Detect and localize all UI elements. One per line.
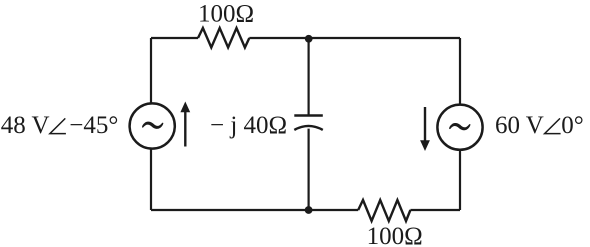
wire left vertical lower [150,149,152,210]
source V1 tilde [142,122,163,129]
svg-text:48 V: 48 V [1,112,50,139]
wire top-left horizontal [151,37,198,39]
svg-text:60 V: 60 V [495,112,544,139]
wire top-right horizontal [249,37,460,39]
svg-text:−45°: −45° [69,112,118,139]
svg-text:0°: 0° [561,112,584,139]
wire right vertical upper [459,38,461,104]
svg-text:100Ω: 100Ω [198,0,254,27]
wire bottom-right horizontal [410,209,460,211]
source V1 circle [130,103,175,148]
angle symbol right [545,118,561,133]
capacitor C1 bottom plate (curved) [294,126,323,130]
resistor R2 100ohm (bottom) [358,200,410,221]
svg-text:− j 40Ω: − j 40Ω [210,112,287,139]
resistor R1 100ohm (top) [198,28,249,48]
wire bottom-left horizontal [151,209,358,211]
wire right vertical lower [459,150,461,210]
source V2 tilde [449,123,470,130]
arrowhead up [180,102,190,113]
arrowhead down [420,140,430,151]
svg-text:100Ω: 100Ω [367,223,423,247]
wire middle vertical upper [308,38,310,116]
node dot top (junction) [305,35,313,43]
angle symbol left [50,118,66,133]
capacitor C1 top plate [294,114,323,117]
wire left vertical upper [150,38,152,103]
node dot bottom (junction) [305,206,313,214]
current arrow up (left loop) [184,111,186,147]
current arrow down (right loop) [424,107,426,142]
source V2 circle [437,105,482,150]
wire middle vertical lower [308,129,310,210]
